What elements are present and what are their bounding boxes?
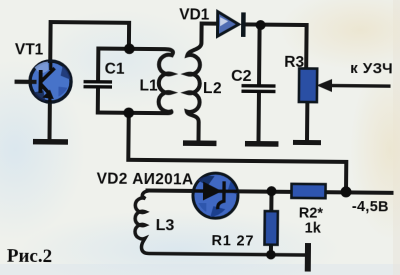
wire: C1 bottom lead to node B: [98, 88, 129, 113]
emitter diagonal with arrow: [41, 84, 49, 92]
resistor R3: [299, 68, 317, 102]
svg-text:L2: L2: [203, 80, 222, 97]
wire: VT1 emitter down to ground: [48, 96, 52, 139]
node C (VD1 cathode / C2): [256, 20, 266, 30]
wire: C2 top lead from node C: [257, 26, 262, 84]
ground (C2 bottom): [245, 141, 279, 147]
svg-text:L3: L3: [156, 217, 175, 234]
resistor R2: [291, 184, 325, 198]
svg-text:к УЗЧ: к УЗЧ: [350, 60, 393, 77]
svg-text:C2: C2: [231, 68, 252, 85]
inductor L3: [135, 190, 305, 255]
svg-text:1k: 1k: [305, 221, 322, 237]
diode VD1: [217, 12, 245, 37]
inductor L1: [128, 49, 173, 113]
wire: R1 bottom lead: [269, 245, 273, 255]
svg-text:L1: L1: [139, 77, 158, 94]
ground (R3 bottom): [293, 140, 321, 145]
resistor R1: [264, 211, 277, 245]
svg-text:Рис.2: Рис.2: [7, 246, 52, 267]
capacitor C1: [84, 82, 113, 87]
base stub wire: [15, 80, 37, 84]
arrow to AF amplifier (к УЗЧ): [316, 79, 390, 93]
collector diagonal: [41, 68, 55, 82]
wire: R1 top lead: [269, 192, 273, 211]
wire: R3 bottom lead to ground: [305, 102, 309, 140]
wire: top rail from L2 to VD1 anode: [202, 22, 217, 26]
svg-text:-4,5В: -4,5В: [352, 199, 389, 215]
svg-text:VD1: VD1: [179, 6, 210, 23]
node B (C1/L1 bottom): [123, 107, 134, 118]
node F (R1 bottom): [266, 250, 276, 260]
inductor L2: [187, 23, 202, 139]
svg-text:VD2 АИ201А: VD2 АИ201А: [97, 171, 194, 189]
svg-text:R3: R3: [284, 54, 304, 71]
transistor VT1: [14, 61, 71, 103]
ground (bottom rail, right end): [305, 243, 311, 272]
svg-text:C1: C1: [105, 61, 125, 78]
wire: node A to C1 top lead: [98, 49, 129, 81]
tunnel diode VD2: [193, 173, 238, 218]
svg-text:R1 27: R1 27: [211, 233, 254, 249]
wire: VD1 cathode to node C and onward to R3: [245, 24, 307, 68]
wire: node B down, middle rail right, down to node E: [128, 113, 347, 190]
wire: VT1 collector up and top-left rail to node A: [50, 22, 129, 63]
node D (R1 top / R2 left): [266, 186, 276, 196]
wire: lower rail through VD2, R1 node, R2, node E to -4,5V terminal: [148, 190, 392, 192]
ground (L2 bottom): [183, 140, 217, 146]
capacitor C2: [241, 86, 275, 92]
node A (C1/L1 top): [124, 43, 135, 54]
ground (VT1 emitter): [33, 139, 68, 145]
svg-text:R2*: R2*: [299, 205, 324, 221]
base bar: [38, 70, 42, 93]
svg-text:VT1: VT1: [15, 41, 44, 58]
node E (R2 right / -4,5V): [340, 186, 351, 197]
wire: C2 bottom lead to ground: [257, 92, 261, 140]
